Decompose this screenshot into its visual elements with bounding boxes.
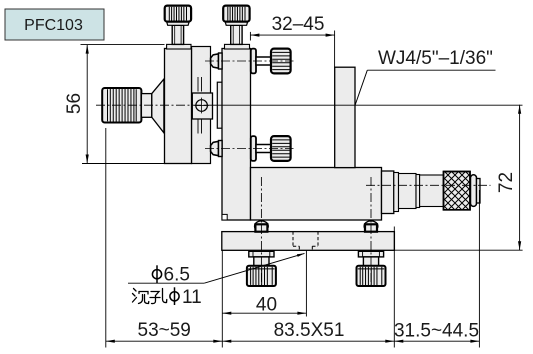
svg-text:11: 11 <box>182 287 202 308</box>
svg-text:72: 72 <box>496 172 517 193</box>
svg-text:53~59: 53~59 <box>138 320 191 341</box>
svg-text:6.5: 6.5 <box>164 265 190 286</box>
svg-text:PFC103: PFC103 <box>24 17 83 34</box>
svg-text:40: 40 <box>256 294 277 315</box>
svg-text:56: 56 <box>64 93 85 114</box>
svg-text:31.5~44.5: 31.5~44.5 <box>394 321 479 342</box>
svg-text:32–45: 32–45 <box>272 14 325 35</box>
svg-text:WJ4/5"–1/36": WJ4/5"–1/36" <box>378 48 493 69</box>
svg-text:83.5X51: 83.5X51 <box>274 320 345 341</box>
